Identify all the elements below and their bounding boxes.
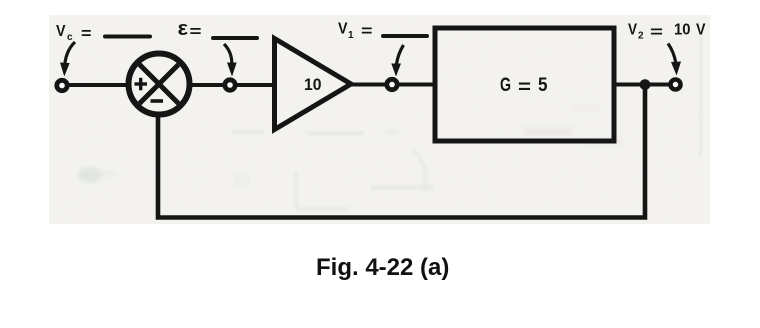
svg-text:1: 1 [348,30,354,41]
node Vc terminal [57,80,67,90]
block G = 5 [435,28,614,141]
label V2 = 10 V [628,22,706,42]
svg-text:=: = [650,24,663,41]
svg-text:10: 10 [304,75,322,94]
svg-text:2: 2 [638,31,644,42]
minus sign [151,99,164,103]
node eps terminal [225,80,235,90]
label G = 5 [500,75,548,98]
node V1 terminal [387,79,397,89]
svg-text:Fig. 4-22 (a): Fig. 4-22 (a) [316,254,449,281]
wire V1 to block [399,83,436,87]
blank line for Vc [105,35,150,39]
svg-text:V: V [628,22,637,39]
node V2 terminal [671,80,681,90]
svg-text:V: V [696,22,706,39]
label Vc = ___ [56,23,92,43]
wire summer to eps node [189,83,225,87]
svg-text:=: = [81,26,92,43]
amplifier gain 10 triangle [275,39,352,130]
svg-text:V: V [56,23,66,40]
scanned figure background [49,15,710,224]
wire Vc to summer [69,83,130,87]
wire block to output terminal [614,83,671,87]
label eps = ___ [178,18,202,41]
plus sign [135,78,148,91]
arrow to Vc node [60,42,75,77]
svg-text:G: G [500,75,511,96]
svg-text:10: 10 [674,22,691,39]
wire amp to V1 node [351,83,386,87]
svg-text:5: 5 [538,75,548,96]
junction node dot [640,79,651,90]
svg-text:=: = [361,23,373,40]
arrow to V1 node [391,45,403,77]
blank line for V1 [383,34,427,38]
svg-text:=: = [190,24,202,41]
summing junction [129,54,190,115]
wire eps to amp [237,83,272,87]
label V1 = ___ [338,21,373,42]
svg-text:V: V [338,21,348,38]
svg-text:ε: ε [178,18,189,40]
arrow to eps node [224,44,237,77]
svg-text:c: c [67,32,73,43]
feedback wire [158,88,645,218]
arrow to V2 node [668,44,681,76]
svg-text:=: = [518,77,531,98]
blank line for eps [213,36,257,40]
